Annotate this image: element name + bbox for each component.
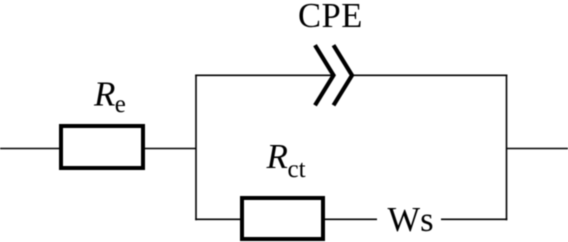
svg-text:ct: ct [288,156,306,183]
svg-text:R: R [266,137,288,176]
svg-text:Ws: Ws [388,201,434,239]
svg-text:e: e [115,91,126,118]
svg-text:CPE: CPE [298,0,363,35]
svg-text:R: R [93,75,115,114]
